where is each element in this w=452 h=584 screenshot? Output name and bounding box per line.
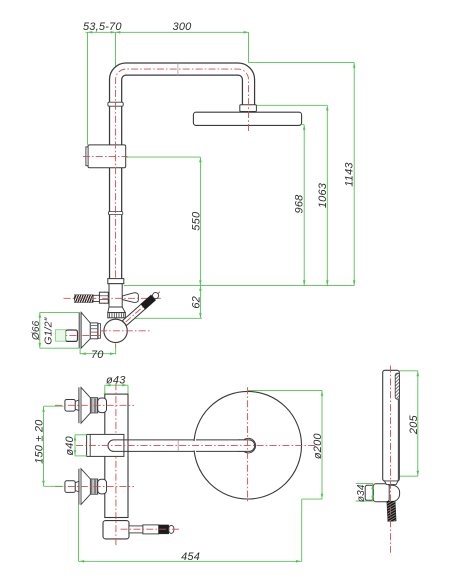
tee left cone — [105, 292, 109, 303]
shower pipe (column, arm and head drop) outline — [116, 69, 249, 280]
inlet connector stem G1/2 — [66, 330, 78, 341]
svg-text:150 ± 20: 150 ± 20 — [34, 419, 46, 464]
dimension 454 — [78, 504, 80, 561]
hand shower wand — [383, 370, 400, 481]
svg-text:62: 62 — [191, 296, 203, 309]
dimension 205 — [400, 370, 418, 372]
svg-text:ø34: ø34 — [356, 484, 367, 502]
supply fitting — [65, 481, 75, 493]
escutcheon cone (top view) — [81, 387, 90, 423]
svg-text:300: 300 — [173, 21, 193, 33]
diverter lever — [122, 289, 163, 326]
svg-text:G1/2″: G1/2″ — [43, 316, 55, 345]
overhead shower (big circle, top view) — [194, 391, 302, 499]
column centerline lower part (red) — [115, 279, 117, 348]
extension line at wall bracket center to 550 — [126, 156, 200, 158]
dimension 70 (wall to valve center) — [79, 349, 81, 355]
svg-text:1143: 1143 — [344, 162, 356, 187]
wall escutcheon cone (side view) — [81, 312, 90, 348]
svg-text:550: 550 — [191, 211, 203, 231]
hose union nut (hex) left of tee — [99, 292, 108, 303]
svg-text:70: 70 — [91, 349, 104, 361]
center fitting cap — [238, 440, 255, 452]
arm pipe joint mark (top view) — [177, 440, 179, 451]
valve body (circle) — [104, 319, 127, 342]
extension line valve ring level — [126, 317, 202, 319]
hand shower centerline (red) — [390, 366, 392, 553]
pipe joint mark on arm — [177, 63, 179, 75]
dimension Ø43 (column) — [105, 384, 128, 386]
supply fitting — [65, 400, 75, 412]
taper below tee — [108, 307, 126, 313]
pipe centerline (red) along column and arm — [116, 69, 249, 277]
union cap nut — [98, 479, 107, 494]
hand shower wand taper into holder — [384, 481, 398, 485]
hand shower hose (coiled) — [387, 501, 396, 521]
arm / head centerline horizontal (red) — [76, 445, 316, 447]
escutcheon knurled ring — [90, 323, 97, 339]
lever centerline (red, top view) — [121, 528, 181, 530]
flexible hose (coiled spring) — [74, 295, 93, 303]
dimension line 62 — [199, 286, 201, 319]
dimension Ø200 — [248, 389, 322, 391]
holder pivot lobe — [384, 485, 400, 501]
holder cup — [373, 484, 389, 502]
pipe sleeve joint upper column — [108, 102, 123, 106]
offset block at arm outlet — [87, 434, 124, 456]
center fitting outer arc — [244, 438, 256, 453]
tee outlets centerline (red) — [64, 297, 162, 299]
extension line pipe centerline — [115, 32, 117, 85]
valve body centerline (red) — [100, 330, 150, 332]
column (top view) — [105, 394, 128, 517]
escutcheon wall face — [78, 312, 80, 348]
holder wall knob — [365, 485, 373, 500]
supply collar above tee — [108, 279, 124, 284]
wall bracket left lip — [86, 147, 88, 166]
washer between ring and valve body — [98, 324, 100, 339]
dimension line 53,5-70 / 300 (top) — [86, 31, 249, 33]
dimension line 968 — [303, 125, 305, 286]
svg-text:1063: 1063 — [317, 182, 329, 208]
bottom housing (top view) — [103, 521, 129, 539]
extension line left (wall bracket face) — [87, 32, 89, 145]
offset block inner face line — [89, 434, 91, 456]
escutcheon cone (top view) — [81, 469, 90, 505]
extension line top of arm to 1143 — [249, 62, 355, 64]
svg-text:ø40: ø40 — [64, 435, 76, 455]
tee body on column — [109, 284, 122, 307]
svg-text:53,5-70: 53,5-70 — [83, 21, 122, 33]
wall bracket centerline (red) — [83, 155, 128, 157]
extension line head pipe centerline — [248, 32, 250, 62]
dimension line 1143 — [353, 63, 355, 286]
hand shower outlet stub (flared) — [122, 293, 138, 303]
head circle centerline vertical (red) — [247, 387, 249, 503]
fitting neck — [75, 400, 79, 411]
extension line at supply tee level (base of 968/1063/1143) — [124, 285, 354, 287]
shower head connector collar — [240, 105, 257, 112]
arm pipe across circle — [196, 440, 243, 452]
gap in circle at pipe crossing — [192, 441, 197, 450]
hose nipple — [93, 295, 99, 301]
wall bracket — [88, 145, 126, 168]
svg-text:205: 205 — [408, 415, 420, 436]
arm pipe (top view) with rounded end — [108, 440, 196, 452]
extension line head bottom to 968 — [302, 124, 304, 126]
union cap nut — [98, 398, 107, 413]
wand handle taper line — [397, 399, 399, 481]
knurled ring (top view) — [90, 398, 97, 413]
union centerline (red) — [55, 404, 134, 406]
union centerline (red) — [55, 486, 134, 488]
pipe joint mark mid column — [108, 212, 122, 215]
svg-text:968: 968 — [294, 194, 306, 214]
svg-text:ø200: ø200 — [312, 433, 324, 460]
dimension 150 ± 20 — [43, 406, 45, 486]
knurled ring (top view) — [90, 479, 97, 494]
extension line head connector to 1063 — [257, 104, 327, 106]
svg-text:454: 454 — [181, 551, 200, 563]
dimension line 1063 — [326, 105, 328, 285]
dimension line 550 — [199, 157, 201, 286]
inlet stem centerline (red) — [57, 335, 101, 337]
shower head plate — [193, 112, 301, 125]
dimension Ø66 (escutcheon) — [39, 312, 41, 348]
svg-text:Ø66: Ø66 — [31, 320, 42, 341]
wand spray strip (hatched) — [395, 373, 399, 399]
fitting neck — [75, 481, 79, 492]
diverter lever (top view) — [129, 526, 143, 533]
dimension Ø34 (holder) — [372, 484, 374, 501]
thread highlight box G1/2 — [56, 330, 66, 342]
knurled ring above valve body — [108, 313, 126, 318]
column lower joint — [104, 517, 128, 519]
column centerline (red, top view) — [115, 383, 117, 546]
dimension Ø40 (arm flange) — [74, 435, 76, 456]
